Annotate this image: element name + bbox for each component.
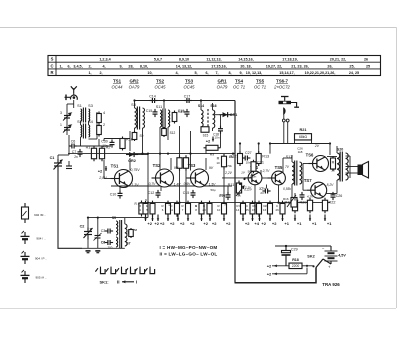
svg-text:C2: C2 — [80, 225, 85, 229]
device header TS3 OC45 — [184, 79, 196, 90]
capacitor C7 — [72, 149, 83, 157]
bottom row label2 R4 — [139, 208, 141, 212]
svg-text:R11: R11 — [228, 183, 235, 187]
svg-text:23: 23 — [331, 169, 335, 173]
headphone jack body — [279, 101, 292, 104]
junction R13 rail — [258, 142, 260, 144]
table S row group 14,15,16, — [238, 58, 253, 62]
wire agc line — [111, 185, 232, 187]
value C26 5k8 — [297, 147, 303, 151]
supply tag +1 at 325 — [327, 221, 332, 226]
volume control arrow — [236, 186, 244, 196]
svg-text:GR2: GR2 — [128, 159, 136, 163]
capacitor C30 — [101, 139, 114, 147]
wire osc top rail — [88, 217, 148, 219]
svg-text:4,5V: 4,5V — [338, 254, 346, 258]
wire antenna to coil S1 — [73, 100, 75, 108]
IF transformer 3 secondary S16 — [213, 110, 215, 128]
supply arrow at 243 — [242, 215, 244, 222]
voltage 2,8V — [98, 176, 107, 180]
bottom row label2 R5 — [146, 208, 148, 212]
bottom row component C20 — [207, 201, 212, 217]
svg-text:21, 23, 26,: 21, 23, 26, — [291, 64, 308, 68]
svg-text:II: II — [117, 280, 119, 285]
svg-text:1,4V: 1,4V — [174, 183, 182, 187]
wire C2 top lead — [87, 218, 89, 228]
model designation TRA 926 — [322, 282, 340, 287]
svg-text:+2: +2 — [203, 221, 208, 226]
supply tag +2 at 178 — [180, 221, 185, 226]
wire long dropper — [234, 101, 236, 283]
svg-text:26,: 26, — [327, 64, 332, 68]
wire R12 top — [239, 144, 241, 154]
svg-text:C8: C8 — [101, 241, 106, 245]
bottom row label2 C26 — [275, 208, 279, 212]
svg-text:2n: 2n — [74, 155, 78, 159]
device header TS2 OC45 — [155, 79, 167, 90]
svg-text:R9: R9 — [210, 153, 215, 157]
svg-text:10, 12,13,: 10, 12,13, — [246, 71, 262, 75]
svg-text:+2: +2 — [98, 169, 103, 174]
table C row group 25 — [366, 64, 370, 68]
diode GR2 — [126, 152, 138, 163]
supply arrow at 310 — [309, 215, 311, 222]
bottom row label R15 — [253, 204, 255, 208]
table row label S — [51, 57, 54, 62]
wire osc bottom rail — [82, 247, 125, 249]
wire sec top — [346, 155, 351, 157]
svg-text:16: 16 — [263, 208, 267, 212]
resistor R8 — [183, 155, 188, 171]
ground tick under coil — [95, 251, 100, 253]
variable capacitor C2 — [80, 225, 93, 240]
junction bus TS3 base — [189, 153, 191, 155]
band legend II — [160, 251, 218, 256]
svg-text:TS2: TS2 — [153, 163, 161, 168]
table C row group 20, 18, — [240, 64, 251, 68]
margin legend capacitor 904 — [21, 231, 30, 244]
value 100n — [250, 175, 257, 179]
svg-text:0,75V: 0,75V — [130, 168, 140, 172]
bottom row label2 R15 — [252, 208, 256, 212]
wire TS1 base — [104, 178, 111, 180]
wire GR2 drop — [147, 155, 149, 203]
svg-text:C15: C15 — [183, 191, 190, 195]
value 2n — [74, 155, 78, 159]
table R row group 10, 12,13, — [246, 71, 262, 75]
svg-text:3,4,5,: 3,4,5, — [73, 64, 82, 68]
junction C18 bus — [232, 153, 234, 155]
wire TS5 coll to S17 — [283, 157, 292, 159]
svg-text:+2: +2 — [206, 139, 211, 144]
wire S17 pri top — [291, 155, 293, 162]
voltage 2,7Vb — [258, 187, 266, 191]
supply arrow at 210 — [209, 215, 211, 222]
svg-text:+1: +1 — [312, 221, 317, 226]
supply arrow at 145.5 — [144, 215, 146, 222]
bottom row component R14 — [241, 201, 246, 217]
voltage 1,5V — [209, 183, 217, 187]
wire speaker sec — [349, 156, 351, 178]
voltage 2,7V — [262, 169, 271, 173]
wire rail to TS6 — [329, 144, 331, 156]
wire bias top — [76, 145, 111, 147]
wire C19 up — [227, 186, 229, 193]
wire TS4 base — [222, 177, 248, 179]
transistor TS7 — [304, 178, 327, 198]
svg-text:19,27, 22,: 19,27, 22, — [266, 64, 282, 68]
svg-text:+2: +2 — [170, 221, 175, 226]
svg-text:5k: 5k — [237, 194, 241, 198]
bottom row label2 R6 — [162, 208, 164, 212]
wire S17 pri bot — [291, 184, 293, 203]
svg-text:10n: 10n — [102, 144, 108, 148]
svg-text:3: 3 — [60, 111, 62, 115]
transistor TS6 — [306, 153, 329, 172]
value 0,55k — [283, 187, 291, 191]
supply arrow at 295 — [294, 215, 296, 222]
resistor R16 — [120, 137, 133, 151]
resistor R9 — [204, 145, 221, 150]
supply tag +4 at 252.5 — [254, 221, 259, 226]
junction battery rail — [285, 245, 287, 247]
svg-text:C6: C6 — [71, 140, 76, 144]
wire jack left down — [283, 114, 285, 143]
wire link down — [68, 135, 70, 155]
svg-text:25,: 25, — [349, 64, 354, 68]
svg-text:GR2: GR2 — [129, 79, 139, 84]
value 70k — [227, 164, 232, 168]
bottom row label C20 — [203, 204, 205, 208]
supply tag +2 at 224 — [226, 221, 231, 226]
svg-text:OC45: OC45 — [184, 85, 196, 90]
supply arrow at 152.5 — [151, 215, 153, 222]
table R row group 1, — [88, 71, 91, 75]
capacitor C15 — [146, 109, 158, 117]
bottom row label C26 — [276, 204, 278, 208]
transistor TS5 — [268, 165, 286, 185]
svg-text:OA79: OA79 — [129, 85, 140, 90]
junction R21 right — [329, 142, 331, 144]
svg-text:C29: C29 — [291, 247, 298, 251]
junction rail IFT2 top — [163, 99, 165, 101]
wire TS4-TS5 link — [262, 177, 272, 179]
svg-text:TS1: TS1 — [111, 164, 119, 169]
table C row group 17,15,16, — [211, 64, 226, 68]
transistor TS3 — [187, 163, 209, 187]
svg-text:6,: 6, — [67, 64, 70, 68]
ferrite antenna coil S2 S4 — [77, 120, 93, 139]
svg-text:24, 25: 24, 25 — [349, 71, 359, 75]
diode GR1 — [220, 112, 232, 117]
label R10mid2 — [216, 161, 220, 165]
wire C30 R16 top — [104, 138, 130, 140]
supply arrow at 282.5 — [281, 215, 283, 222]
svg-text:5,: 5, — [194, 71, 197, 75]
svg-text:8,9,10: 8,9,10 — [179, 58, 189, 62]
wire C4 bottom lead — [97, 238, 99, 248]
wire C1 top — [57, 155, 59, 161]
antenna jack socket — [65, 93, 78, 100]
wire tuning gang to oscillator — [58, 171, 82, 248]
+2 feed left — [98, 169, 103, 174]
svg-text:10: 10 — [217, 208, 221, 212]
supply tag +2 at 188 — [190, 221, 195, 226]
supply tag +1 at 310 — [312, 221, 317, 226]
table R row group 6, — [205, 71, 208, 75]
capacitor C24 — [300, 192, 305, 200]
table C row group 25, — [349, 64, 354, 68]
table S row group 5,6,7 — [154, 58, 162, 62]
device header GR2 OA79 — [129, 79, 140, 90]
band switch SK1 contact 1 — [95, 267, 105, 274]
voltage 2,2V — [224, 171, 233, 175]
wire negative return bus — [235, 268, 317, 283]
svg-text:R22: R22 — [329, 201, 336, 205]
wire R8 down — [185, 169, 187, 203]
svg-text:28,: 28, — [128, 64, 133, 68]
value 50u — [210, 188, 215, 192]
label 58 — [134, 228, 138, 232]
svg-text:TS6-7: TS6-7 — [276, 79, 289, 84]
voltage 0,22V — [244, 188, 253, 192]
resistor R18 — [289, 263, 302, 269]
output transformer S20 — [337, 152, 348, 182]
svg-text:S16: S16 — [210, 104, 216, 108]
svg-text:10n: 10n — [214, 136, 219, 140]
bottom row label2 C25 — [245, 208, 249, 212]
capacitor C29 — [282, 246, 298, 266]
svg-text:S9: S9 — [140, 134, 144, 138]
wire R21 left leg — [294, 140, 296, 144]
label S9 — [140, 134, 144, 138]
bottom row label C25 — [246, 204, 248, 208]
wire TS1 emitter — [119, 187, 121, 192]
svg-text:1,: 1, — [59, 64, 62, 68]
wire R21 right leg — [311, 140, 313, 144]
wire coil S3 right leg — [88, 121, 90, 125]
svg-text:C30: C30 — [101, 140, 108, 144]
label S6 — [127, 231, 131, 235]
arrow +2 det — [212, 137, 214, 142]
margin legend text 904 / P .. — [35, 257, 47, 261]
wire S20 top — [336, 146, 338, 153]
bottom row label R4 — [139, 204, 141, 208]
capacitor C18 — [218, 126, 223, 134]
wire IFT1 pri top — [134, 101, 136, 109]
wire GR1 to dropper — [232, 114, 236, 116]
svg-text:TS5: TS5 — [256, 79, 265, 84]
value 100u — [219, 193, 224, 197]
svg-text:20, 18,: 20, 18, — [240, 64, 251, 68]
svg-text:2,8V: 2,8V — [98, 176, 107, 180]
wire trimmer column — [66, 104, 68, 135]
table R row group 15,14,17, — [279, 71, 294, 75]
capacitor C21 — [251, 160, 264, 174]
bottom row label R7 — [182, 204, 184, 208]
table R row group 10, — [147, 71, 152, 75]
wire TS1 base drop — [103, 160, 105, 179]
svg-text:OC 71: OC 71 — [233, 85, 245, 90]
voltage 2V — [314, 144, 320, 148]
junction battery rail C29 — [285, 245, 287, 247]
junction +1 node — [306, 265, 308, 267]
supply tag +1 at 282.5 — [284, 221, 289, 226]
svg-text:R16: R16 — [283, 197, 289, 201]
device header TS5 OC 71 — [254, 79, 266, 90]
antenna — [71, 86, 77, 93]
coupling coil S15 box — [201, 127, 209, 133]
svg-text:C19: C19 — [219, 194, 226, 198]
junction volume top — [239, 183, 241, 185]
junction emitter bus TS4 — [254, 202, 256, 204]
svg-text:20: 20 — [202, 208, 206, 212]
bottom row component C25 — [250, 201, 255, 217]
page scan bottom edge — [0, 308, 396, 310]
oscillator core — [120, 220, 122, 248]
label R23b — [331, 169, 335, 173]
wire speaker bot — [346, 172, 358, 174]
bottom row label R8 — [195, 204, 197, 208]
value 10n C27 — [246, 161, 251, 165]
svg-text:4,: 4, — [102, 64, 105, 68]
bottom row component R15 — [257, 201, 262, 217]
junction rail C14 left — [133, 99, 135, 101]
bottom row component R7 — [186, 201, 191, 217]
svg-text:SK1:: SK1: — [99, 279, 108, 284]
label S20 — [337, 148, 343, 152]
wire top signal rail — [135, 100, 236, 102]
wire coil left leg — [80, 121, 82, 125]
svg-text:23: 23 — [260, 191, 264, 195]
svg-text:2,2V: 2,2V — [224, 171, 233, 175]
table C row group 8,10, — [140, 64, 148, 68]
band switch SK1 contact 3 — [116, 267, 126, 274]
wire TS1 collector up — [129, 158, 131, 171]
svg-text:2V: 2V — [314, 144, 320, 148]
wire mid bus — [68, 153, 235, 155]
device header GR1 OA79 — [217, 79, 228, 90]
wire R19 up — [294, 193, 296, 201]
svg-text:2×OC72: 2×OC72 — [273, 85, 290, 90]
supply tag +2 at 243 — [245, 221, 250, 226]
headphone plug tip — [281, 97, 289, 101]
switch SK2 — [312, 259, 331, 268]
wire IFT2 tap down — [159, 127, 161, 131]
svg-text:C21: C21 — [257, 161, 264, 165]
transistor TS2 — [152, 163, 174, 187]
band switch SK1 contact 2 — [106, 267, 116, 274]
junction emitter bus TS5 — [277, 202, 279, 204]
label C18 — [213, 133, 219, 137]
wire bias R2 top — [101, 146, 103, 148]
svg-text:2: 2 — [103, 123, 105, 127]
resistor R21 — [295, 134, 312, 140]
svg-text:+2: +2 — [160, 221, 165, 226]
svg-text:2,: 2, — [99, 71, 102, 75]
svg-text:2200: 2200 — [292, 264, 300, 268]
wire TS3 collector — [205, 158, 207, 170]
trimmer capacitor C3 — [60, 111, 71, 121]
label R3 — [135, 202, 140, 206]
svg-text:R13: R13 — [262, 155, 269, 159]
label S15 — [203, 134, 209, 138]
supply arrow at 259.5 — [258, 215, 260, 222]
device header TS6-7 2×OC72 — [273, 79, 290, 90]
wire TS6 base — [303, 163, 309, 165]
svg-text:905 /A ..: 905 /A .. — [35, 276, 46, 280]
capacitor C23 — [260, 187, 270, 194]
value 8k2 — [239, 204, 241, 208]
padder capacitor 2 — [97, 123, 105, 137]
svg-text:56k: 56k — [248, 170, 253, 174]
table C row group 6, — [67, 64, 70, 68]
transistor TS1 — [111, 164, 133, 188]
svg-text:9V: 9V — [174, 166, 179, 170]
svg-text:17,15,16,: 17,15,16, — [211, 64, 226, 68]
svg-text:TS6: TS6 — [306, 153, 314, 158]
+2 detector — [206, 139, 211, 144]
junction bus TS2 base — [159, 153, 161, 155]
wire +2 feed — [272, 265, 289, 267]
svg-text:C15: C15 — [146, 109, 153, 113]
svg-text:C: C — [50, 63, 53, 68]
bottom row label R16 — [264, 204, 266, 208]
svg-text:S20: S20 — [337, 148, 343, 152]
svg-text:S2: S2 — [77, 120, 82, 124]
wire C30 top — [103, 139, 105, 142]
wire C1 top link — [58, 154, 69, 156]
voltage 1,4V — [174, 183, 182, 187]
value 12k — [229, 155, 234, 159]
svg-text:0,9V: 0,9V — [184, 182, 192, 186]
svg-text:200: 200 — [108, 246, 113, 250]
component location table frame — [48, 56, 381, 76]
wire R16 top — [112, 138, 123, 140]
loudspeaker — [358, 162, 369, 179]
page scan right edge — [396, 28, 398, 309]
label R9 — [210, 153, 215, 157]
wire R7 up — [179, 126, 181, 158]
svg-text:C1: C1 — [50, 156, 55, 160]
svg-text:I = HW–MG–PO–NW–OM: I = HW–MG–PO–NW–OM — [160, 245, 218, 250]
junction R12 rail — [239, 142, 241, 144]
device header TS1 OC44 — [112, 79, 124, 90]
voltage 0,7V — [149, 182, 157, 186]
label R21 — [300, 128, 307, 132]
supply tag +2 at 201.5 — [203, 221, 208, 226]
voltage 2,1V — [244, 186, 252, 190]
band switch SK1 contact 6 — [145, 267, 155, 274]
svg-text:C17: C17 — [184, 94, 191, 98]
svg-text:5,6,7: 5,6,7 — [154, 58, 162, 62]
svg-text:15: 15 — [252, 208, 256, 212]
table R row group 2, — [99, 71, 102, 75]
wire C18 down — [220, 132, 222, 148]
trimmer capacitor C5 — [60, 123, 71, 133]
svg-text:14, 13,12,: 14, 13,12, — [176, 64, 192, 68]
bottom row component R6 — [166, 201, 171, 217]
svg-text:0,55k: 0,55k — [283, 187, 291, 191]
svg-text:1: 1 — [60, 123, 62, 127]
wire TS5 collector up — [282, 158, 284, 173]
arrow +2 power — [274, 265, 277, 268]
junction mid bus GR2 — [147, 153, 149, 155]
margin legend text 902/M — [34, 213, 46, 217]
wire R13 top — [258, 144, 260, 154]
svg-text:I: I — [136, 280, 137, 285]
junction antenna jack center — [73, 96, 75, 98]
